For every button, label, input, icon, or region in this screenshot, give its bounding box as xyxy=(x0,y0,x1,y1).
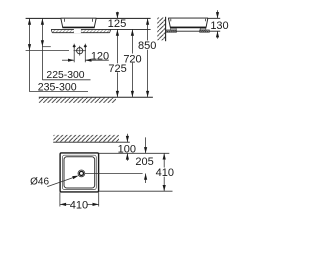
dimension 725 xyxy=(108,30,126,98)
plan view: wall hatch strip xyxy=(54,135,119,142)
svg-text:410: 410 xyxy=(156,167,174,179)
extension line basin left edge xyxy=(59,192,61,206)
faucet hole centerline right xyxy=(84,44,86,63)
dimension 205 xyxy=(135,137,153,183)
side view: wall hatch xyxy=(157,18,165,41)
plan view: drain inner circle xyxy=(79,171,83,175)
front view: countertop slab with hatch xyxy=(51,29,150,32)
dimension 125 xyxy=(108,12,127,30)
extension line basin right edge xyxy=(98,192,100,206)
extension line basin bottom edge xyxy=(99,190,173,192)
side view: shelf line xyxy=(166,30,220,32)
svg-text:100: 100 xyxy=(118,143,136,155)
front view: basin body xyxy=(61,19,96,28)
svg-text:125: 125 xyxy=(108,18,127,30)
svg-text:720: 720 xyxy=(123,53,141,65)
svg-text:120: 120 xyxy=(91,51,109,63)
extension line basin top edge xyxy=(99,152,170,154)
plan view: basin bowl edge xyxy=(64,157,95,188)
plan view: basin rim inner line xyxy=(62,155,96,189)
front view: basin rim top line xyxy=(26,17,151,19)
front view: floor hatch xyxy=(39,98,116,103)
front view: floor line xyxy=(39,96,153,98)
dimension 410 horizontal xyxy=(60,199,99,211)
side view: wall line xyxy=(165,17,167,41)
dimension 120 xyxy=(62,51,109,63)
dimension 720 xyxy=(123,30,141,98)
svg-text:235-300: 235-300 xyxy=(38,82,77,94)
side view: left foot xyxy=(171,28,177,30)
svg-text:410: 410 xyxy=(70,199,88,211)
dimension 225-300 xyxy=(41,19,91,81)
dimension 410 vertical xyxy=(156,153,175,191)
extension line drain center xyxy=(85,172,143,174)
svg-text:205: 205 xyxy=(135,156,153,168)
side view: right foot xyxy=(200,28,206,30)
side view: left wall bracket xyxy=(166,30,177,32)
dimension 100 xyxy=(118,134,136,161)
faucet hole cutout in countertop xyxy=(74,29,81,33)
dimension 130 xyxy=(210,10,228,38)
plan view: drain outer circle xyxy=(78,170,85,177)
dimension 850 xyxy=(138,19,156,98)
label O46 leader line xyxy=(47,174,79,187)
faucet hole marker left xyxy=(73,45,76,48)
plan view: basin outer square xyxy=(60,153,99,192)
plan view: wall line xyxy=(53,141,130,143)
faucet hole marker right xyxy=(84,45,87,48)
svg-text:850: 850 xyxy=(138,40,156,52)
side view: basin rim top line xyxy=(168,17,220,19)
dimension 235-300 xyxy=(26,19,88,94)
faucet hole circle crosshair xyxy=(74,46,87,56)
svg-text:225-300: 225-300 xyxy=(46,70,84,81)
side view: right wall bracket xyxy=(200,30,210,32)
side view: basin body xyxy=(169,19,208,28)
svg-text:Ø46: Ø46 xyxy=(30,177,49,188)
svg-text:130: 130 xyxy=(210,20,228,32)
faucet hole centerline left xyxy=(73,44,75,63)
